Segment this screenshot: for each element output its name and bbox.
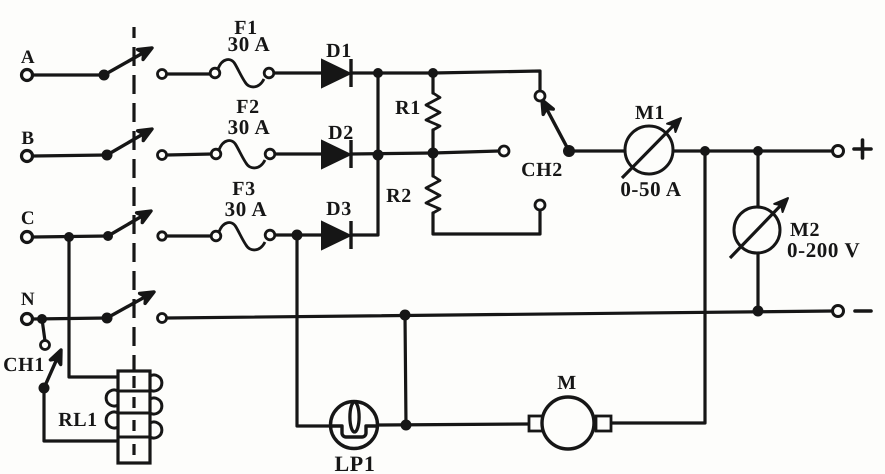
svg-text:RL1: RL1 — [58, 409, 98, 431]
svg-text:0-50 A: 0-50 A — [620, 177, 682, 201]
svg-text:30 A: 30 A — [228, 32, 271, 56]
svg-text:D1: D1 — [326, 40, 352, 62]
svg-text:B: B — [21, 128, 34, 149]
svg-text:30 A: 30 A — [225, 197, 268, 221]
svg-text:M1: M1 — [635, 102, 665, 124]
svg-text:D2: D2 — [328, 122, 354, 144]
svg-text:0-200 V: 0-200 V — [787, 238, 860, 262]
svg-text:C: C — [21, 208, 35, 229]
svg-text:30 A: 30 A — [228, 115, 271, 139]
svg-text:M: M — [557, 372, 576, 394]
svg-text:N: N — [21, 289, 35, 310]
svg-text:R1: R1 — [395, 97, 421, 119]
svg-text:CH2: CH2 — [521, 159, 563, 181]
svg-text:CH1: CH1 — [3, 354, 45, 376]
svg-text:R2: R2 — [386, 185, 412, 207]
svg-text:LP1: LP1 — [335, 451, 376, 474]
svg-text:A: A — [21, 47, 35, 68]
svg-text:D3: D3 — [326, 198, 352, 220]
